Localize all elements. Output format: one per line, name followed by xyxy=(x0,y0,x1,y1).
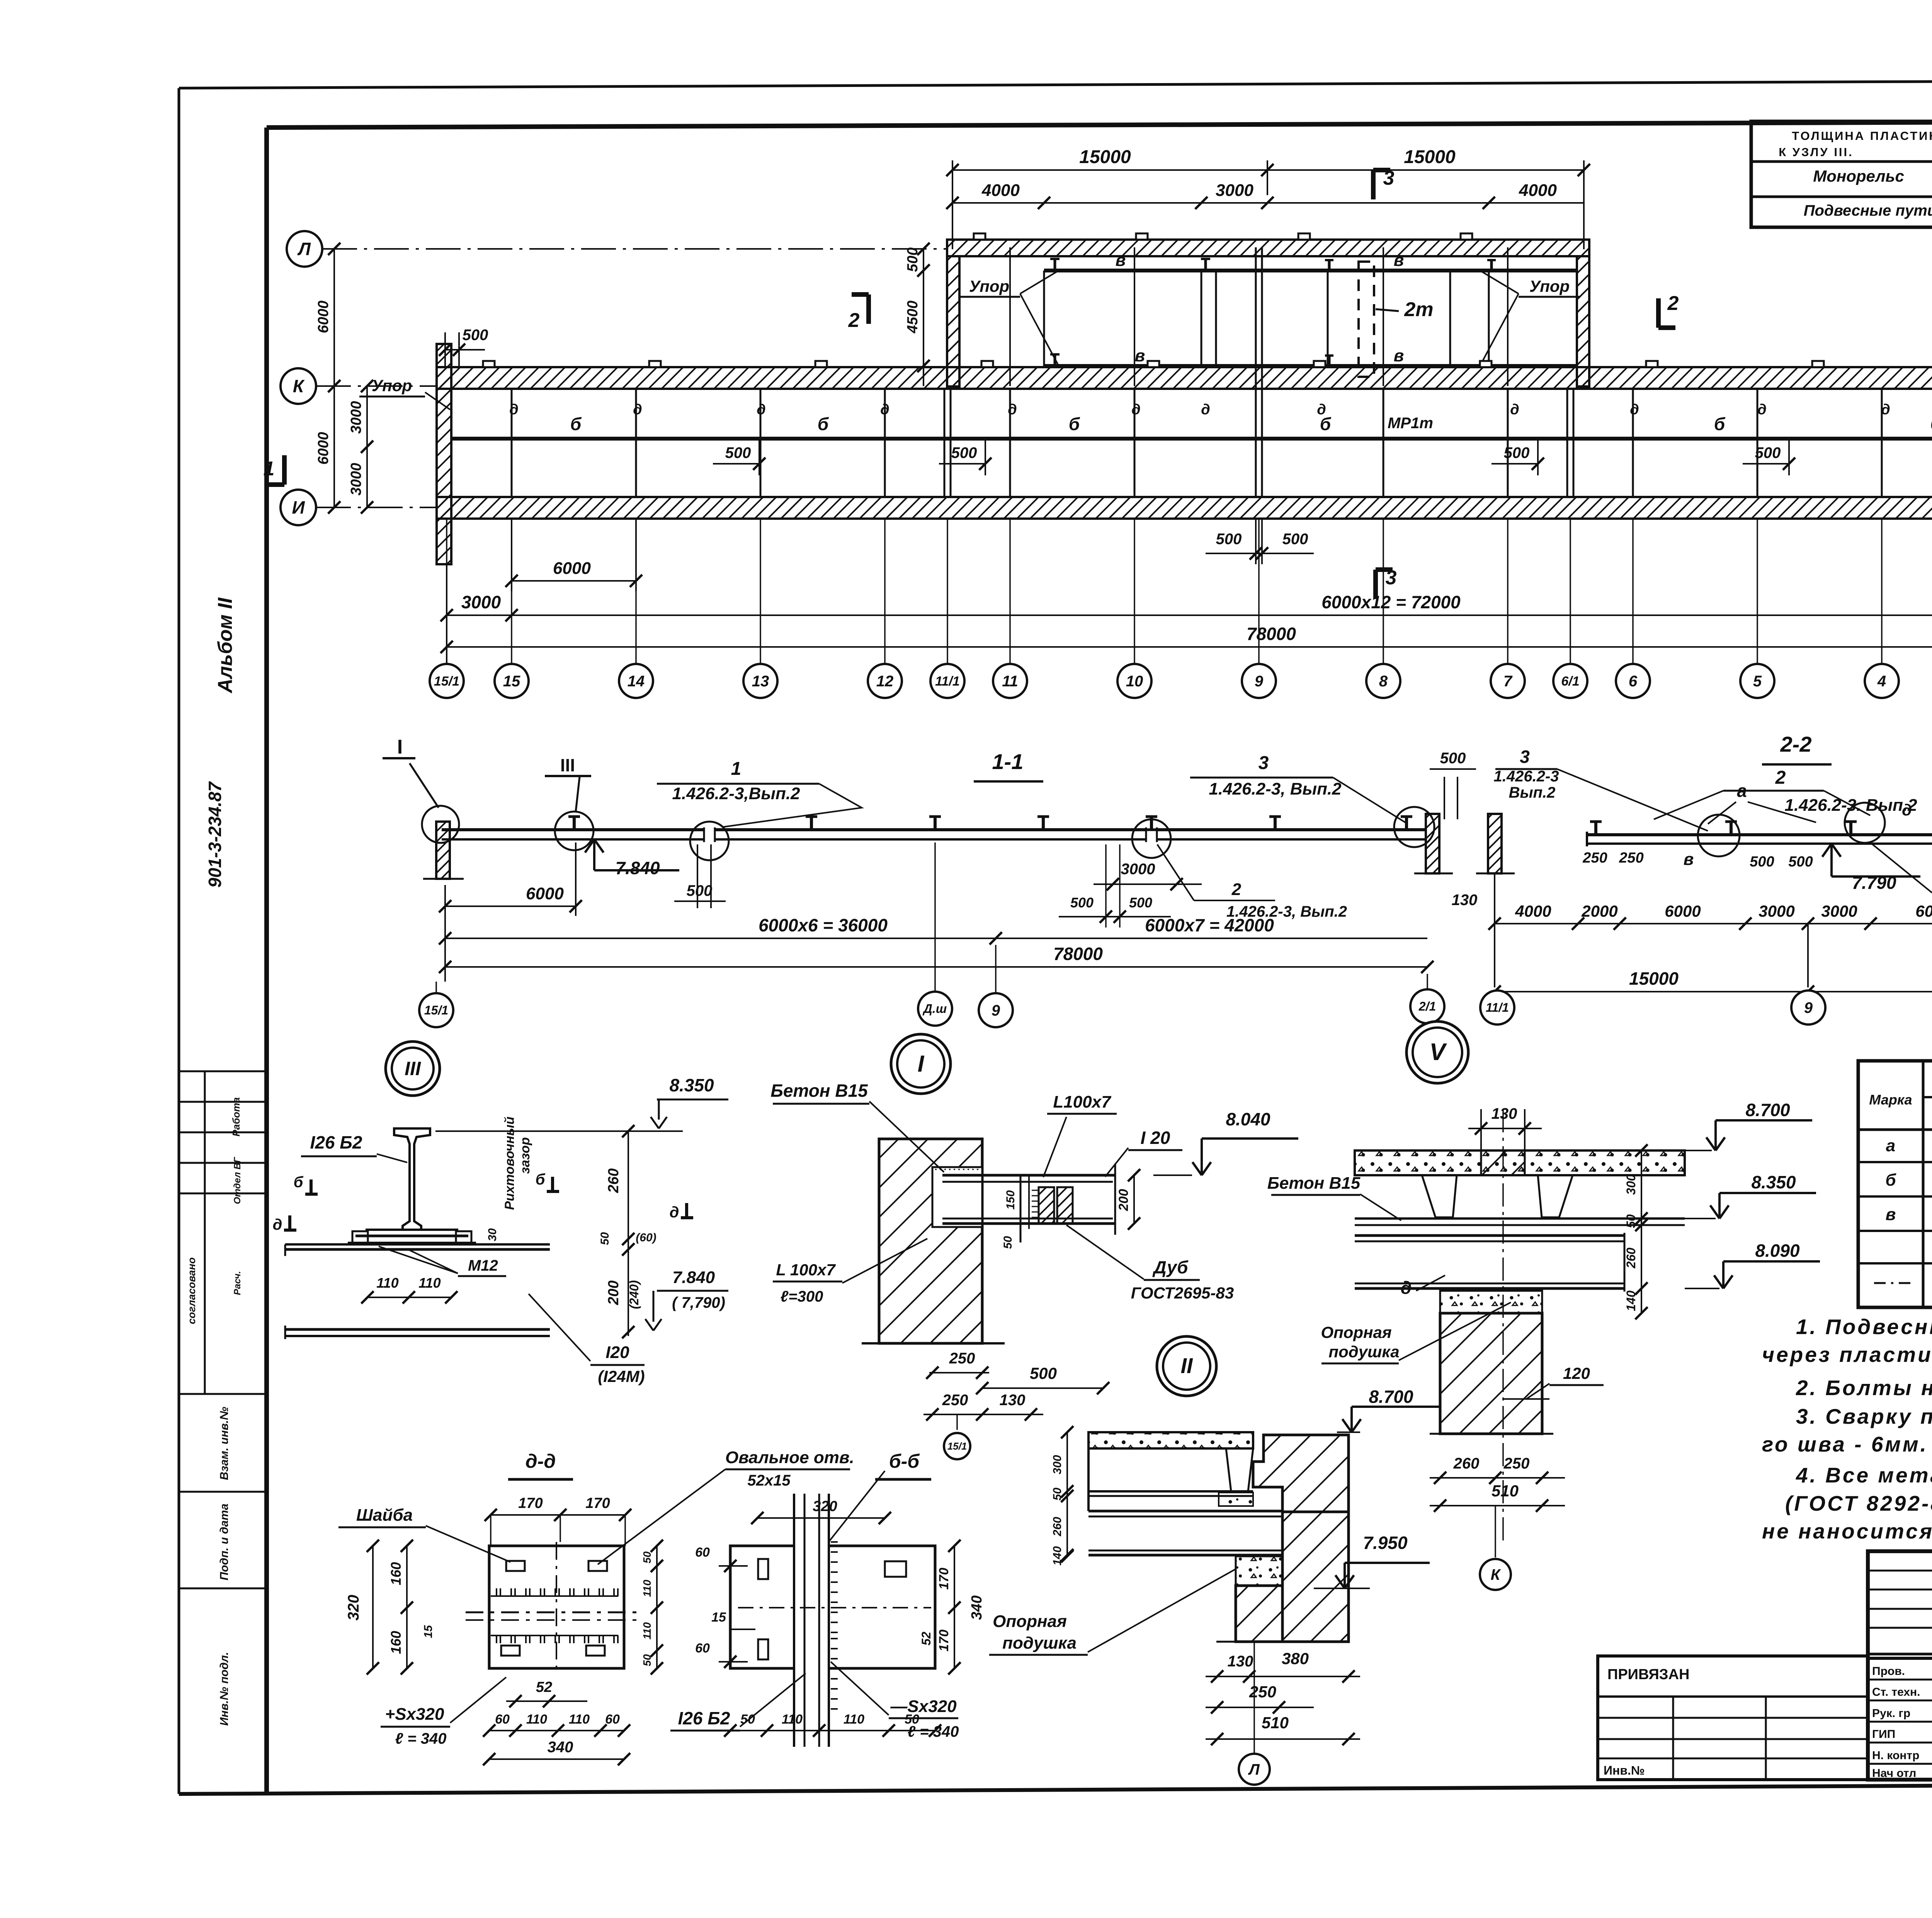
svg-text:60: 60 xyxy=(695,1641,710,1656)
svg-text:б: б xyxy=(1885,1171,1896,1190)
svg-text:15/1: 15/1 xyxy=(947,1440,967,1452)
svg-text:130: 130 xyxy=(1228,1653,1253,1670)
svg-text:б: б xyxy=(1069,414,1080,434)
svg-text:2: 2 xyxy=(848,309,860,332)
svg-text:52х15: 52х15 xyxy=(747,1472,791,1489)
svg-text:250: 250 xyxy=(942,1392,968,1409)
svg-text:260: 260 xyxy=(1453,1455,1480,1472)
svg-text:Опорная: Опорная xyxy=(993,1612,1067,1631)
svg-text:30: 30 xyxy=(486,1228,499,1241)
svg-text:110: 110 xyxy=(844,1712,864,1727)
svg-text:ГОСТ2695-83: ГОСТ2695-83 xyxy=(1131,1284,1234,1302)
svg-text:Упор: Упор xyxy=(1529,277,1570,295)
svg-text:60: 60 xyxy=(495,1712,510,1727)
svg-text:500: 500 xyxy=(463,327,488,344)
svg-text:130: 130 xyxy=(1452,892,1478,909)
svg-text:150: 150 xyxy=(1004,1190,1017,1210)
svg-text:160: 160 xyxy=(388,1631,404,1654)
svg-text:14: 14 xyxy=(628,673,645,690)
svg-text:6000х7 = 42000: 6000х7 = 42000 xyxy=(1145,915,1274,935)
svg-text:500: 500 xyxy=(1788,854,1813,870)
svg-text:L100х7: L100х7 xyxy=(1053,1093,1112,1111)
svg-text:2: 2 xyxy=(1231,880,1242,899)
svg-text:500: 500 xyxy=(725,444,751,461)
svg-text:52: 52 xyxy=(919,1632,933,1646)
svg-text:11: 11 xyxy=(1002,673,1018,690)
svg-text:б: б xyxy=(570,414,582,434)
svg-text:3000: 3000 xyxy=(348,463,364,496)
svg-text:7.840: 7.840 xyxy=(615,858,660,878)
svg-text:Отдел ВГ: Отдел ВГ xyxy=(232,1157,243,1204)
svg-text:110: 110 xyxy=(418,1275,440,1291)
svg-text:согласовано: согласовано xyxy=(186,1257,197,1324)
svg-text:6000: 6000 xyxy=(526,884,564,903)
svg-text:I: I xyxy=(918,1051,925,1077)
svg-text:320: 320 xyxy=(345,1595,362,1621)
svg-text:510: 510 xyxy=(1492,1482,1519,1500)
svg-text:Бетон В15: Бетон В15 xyxy=(770,1081,868,1101)
svg-text:50: 50 xyxy=(1051,1487,1064,1501)
svg-text:ТОЛЩИНА ПЛАСТИН: ТОЛЩИНА ПЛАСТИН xyxy=(1792,129,1932,143)
svg-text:( 7,790): ( 7,790) xyxy=(672,1294,725,1311)
svg-text:300: 300 xyxy=(1051,1455,1064,1474)
svg-text:Нач отл: Нач отл xyxy=(1872,1767,1916,1780)
svg-text:8: 8 xyxy=(1379,673,1388,690)
svg-text:Н. контр: Н. контр xyxy=(1872,1749,1919,1762)
svg-text:250: 250 xyxy=(1582,850,1607,866)
svg-text:6/1: 6/1 xyxy=(1561,674,1579,689)
svg-text:М12: М12 xyxy=(468,1257,498,1274)
svg-text:д: д xyxy=(757,402,766,418)
svg-text:170: 170 xyxy=(937,1630,951,1652)
svg-text:I 20: I 20 xyxy=(1141,1128,1170,1148)
svg-text:д: д xyxy=(1008,402,1017,418)
svg-text:15: 15 xyxy=(503,673,520,690)
svg-text:110: 110 xyxy=(376,1275,398,1291)
svg-text:140: 140 xyxy=(1624,1290,1638,1311)
svg-text:(I24М): (I24М) xyxy=(598,1367,645,1385)
svg-text:д-д: д-д xyxy=(526,1450,556,1472)
svg-text:К УЗЛУ III.: К УЗЛУ III. xyxy=(1779,145,1854,159)
svg-text:б: б xyxy=(818,414,829,434)
svg-text:160: 160 xyxy=(388,1562,404,1585)
svg-text:Расч.: Расч. xyxy=(232,1271,243,1295)
svg-text:Л: Л xyxy=(1248,1761,1260,1778)
svg-text:Инв.№ подл.: Инв.№ подл. xyxy=(218,1652,231,1726)
svg-text:9: 9 xyxy=(1255,673,1264,690)
svg-text:500: 500 xyxy=(905,247,921,272)
svg-text:60: 60 xyxy=(605,1712,620,1727)
svg-text:(60): (60) xyxy=(636,1231,656,1244)
svg-text:140: 140 xyxy=(1051,1546,1064,1566)
svg-text:5: 5 xyxy=(1753,673,1762,690)
svg-text:2: 2 xyxy=(1667,292,1679,315)
svg-text:Бетон В15: Бетон В15 xyxy=(1267,1174,1361,1193)
svg-text:подушка: подушка xyxy=(1002,1634,1077,1653)
svg-text:д: д xyxy=(1630,402,1639,418)
svg-text:(240): (240) xyxy=(627,1280,641,1309)
svg-text:а: а xyxy=(1737,781,1747,801)
svg-text:д: д xyxy=(633,402,642,418)
svg-text:200: 200 xyxy=(1116,1189,1131,1212)
svg-text:4000: 4000 xyxy=(981,181,1020,200)
svg-text:320: 320 xyxy=(813,1498,837,1515)
svg-text:50: 50 xyxy=(1624,1214,1638,1228)
svg-text:15: 15 xyxy=(422,1625,435,1638)
svg-text:15: 15 xyxy=(711,1610,726,1625)
svg-text:6000: 6000 xyxy=(315,301,332,334)
svg-text:4. Все металлоконструкции: 4. Все металлоконструкции окрасить за 2 … xyxy=(1796,1463,1932,1487)
svg-text:130: 130 xyxy=(1492,1105,1517,1122)
svg-text:Марка: Марка xyxy=(1869,1092,1912,1108)
svg-text:3: 3 xyxy=(1520,747,1530,767)
svg-text:50: 50 xyxy=(641,1551,653,1564)
svg-text:500: 500 xyxy=(1440,750,1466,767)
svg-text:9: 9 xyxy=(992,1002,1000,1019)
svg-text:в: в xyxy=(1394,346,1404,365)
svg-text:Овальное отв.: Овальное отв. xyxy=(725,1448,854,1467)
svg-text:11/1: 11/1 xyxy=(1486,1001,1509,1014)
svg-text:ГИП: ГИП xyxy=(1872,1728,1895,1741)
svg-text:в: в xyxy=(1116,251,1126,270)
svg-text:Ст. техн.: Ст. техн. xyxy=(1872,1686,1920,1698)
svg-text:50: 50 xyxy=(599,1232,611,1245)
svg-text:Подп. и дата: Подп. и дата xyxy=(218,1504,231,1581)
svg-text:не наносится.: не наносится. xyxy=(1762,1519,1932,1543)
svg-text:(ГОСТ 8292-85) по грунтовке.: (ГОСТ 8292-85) по грунтовке. На ездовую … xyxy=(1785,1491,1932,1515)
svg-text:1: 1 xyxy=(264,458,275,480)
svg-text:Вып.2: Вып.2 xyxy=(1509,784,1556,801)
svg-text:500: 500 xyxy=(1750,854,1774,870)
svg-text:1-1: 1-1 xyxy=(992,749,1024,774)
svg-text:И: И xyxy=(292,497,305,517)
svg-text:15/1: 15/1 xyxy=(434,674,459,689)
svg-text:52: 52 xyxy=(536,1679,552,1695)
svg-text:ℓ=300: ℓ=300 xyxy=(781,1288,823,1305)
svg-text:1.426.2-3,Вып.2: 1.426.2-3,Вып.2 xyxy=(672,784,800,803)
svg-text:260: 260 xyxy=(605,1168,622,1193)
svg-text:500: 500 xyxy=(687,882,713,899)
svg-text:Взам. инв.№: Взам. инв.№ xyxy=(218,1407,231,1480)
svg-text:К: К xyxy=(1491,1566,1501,1583)
svg-text:Дуб: Дуб xyxy=(1152,1257,1189,1277)
svg-text:500: 500 xyxy=(1755,444,1781,461)
svg-text:2000: 2000 xyxy=(1581,902,1617,920)
svg-text:12: 12 xyxy=(876,673,894,690)
svg-text:Монорельс: Монорельс xyxy=(1813,167,1904,185)
svg-text:7.950: 7.950 xyxy=(1363,1533,1408,1553)
svg-text:2. Болты нормальной точнос: 2. Болты нормальной точности ГОСТ 7798-7… xyxy=(1796,1376,1932,1400)
svg-text:—Sх320: —Sх320 xyxy=(890,1697,957,1716)
svg-text:500: 500 xyxy=(951,444,977,461)
svg-text:д: д xyxy=(1201,402,1210,418)
svg-text:д: д xyxy=(880,402,889,418)
svg-text:510: 510 xyxy=(1262,1714,1289,1732)
svg-text:340: 340 xyxy=(969,1595,985,1620)
svg-text:д: д xyxy=(670,1204,679,1221)
svg-text:8.040: 8.040 xyxy=(1226,1109,1270,1129)
svg-text:6000: 6000 xyxy=(553,559,591,578)
svg-text:в: в xyxy=(1684,850,1694,869)
svg-text:через пластины.: через пластины. xyxy=(1762,1343,1932,1367)
svg-text:13: 13 xyxy=(752,673,769,690)
svg-text:III: III xyxy=(405,1058,421,1079)
svg-text:3. Сварку производить элект: 3. Сварку производить электродами Э42 ГО… xyxy=(1796,1404,1932,1428)
svg-text:подушка: подушка xyxy=(1328,1343,1399,1361)
svg-text:3: 3 xyxy=(1383,167,1395,189)
svg-text:250: 250 xyxy=(949,1350,975,1367)
svg-text:1: 1 xyxy=(731,759,742,779)
svg-text:2-2: 2-2 xyxy=(1780,732,1812,756)
svg-text:д: д xyxy=(1401,1278,1412,1298)
svg-text:300: 300 xyxy=(1624,1174,1638,1195)
svg-text:110: 110 xyxy=(526,1712,547,1727)
svg-text:170: 170 xyxy=(937,1568,951,1590)
svg-text:I20: I20 xyxy=(605,1343,629,1362)
svg-text:1.426.2-3, Вып.2: 1.426.2-3, Вып.2 xyxy=(1209,779,1342,798)
svg-text:д: д xyxy=(1881,402,1890,418)
svg-text:110: 110 xyxy=(782,1712,803,1727)
svg-text:3000: 3000 xyxy=(1216,181,1253,200)
svg-text:ПРИВЯЗАН: ПРИВЯЗАН xyxy=(1607,1666,1689,1683)
svg-text:I26 Б2: I26 Б2 xyxy=(678,1708,730,1728)
svg-text:78000: 78000 xyxy=(1247,624,1296,644)
svg-text:8.350: 8.350 xyxy=(1751,1172,1796,1192)
svg-text:Рихтовочный: Рихтовочный xyxy=(502,1116,517,1210)
svg-text:4000: 4000 xyxy=(1519,181,1557,200)
svg-text:Альбом II: Альбом II xyxy=(214,597,236,694)
svg-text:Работа: Работа xyxy=(230,1097,242,1136)
svg-text:ℓ = 340: ℓ = 340 xyxy=(908,1723,959,1740)
svg-text:III: III xyxy=(560,755,575,775)
svg-text:4500: 4500 xyxy=(905,301,921,334)
svg-text:110: 110 xyxy=(641,1579,653,1597)
svg-text:170: 170 xyxy=(585,1495,610,1511)
svg-text:а: а xyxy=(1886,1136,1895,1155)
svg-text:15000: 15000 xyxy=(1404,147,1456,167)
svg-text:9: 9 xyxy=(1804,999,1813,1016)
svg-text:4: 4 xyxy=(1877,673,1886,690)
svg-text:I: I xyxy=(397,736,403,758)
svg-text:зазор: зазор xyxy=(518,1137,532,1174)
svg-text:15000: 15000 xyxy=(1629,968,1679,989)
svg-text:Инв.№: Инв.№ xyxy=(1604,1763,1645,1777)
svg-text:260: 260 xyxy=(1624,1247,1638,1269)
svg-text:250: 250 xyxy=(1619,850,1643,866)
svg-text:б: б xyxy=(1714,414,1726,434)
svg-text:6000х6 = 36000: 6000х6 = 36000 xyxy=(759,915,888,935)
svg-text:Опорная: Опорная xyxy=(1321,1323,1391,1341)
svg-text:15000: 15000 xyxy=(1079,147,1131,167)
svg-text:К: К xyxy=(293,376,305,396)
svg-text:8.700: 8.700 xyxy=(1369,1387,1413,1407)
svg-text:д: д xyxy=(1131,402,1141,418)
svg-text:в: в xyxy=(1135,346,1145,365)
svg-text:60: 60 xyxy=(695,1545,710,1560)
svg-text:130: 130 xyxy=(1000,1392,1026,1409)
svg-text:901-3-234.87: 901-3-234.87 xyxy=(205,781,225,888)
svg-text:Шайба: Шайба xyxy=(356,1506,413,1525)
svg-text:3000: 3000 xyxy=(1759,902,1794,920)
svg-text:260: 260 xyxy=(1051,1517,1064,1537)
svg-text:110: 110 xyxy=(569,1712,590,1727)
svg-text:11/1: 11/1 xyxy=(935,674,960,689)
svg-text:ℓ = 340: ℓ = 340 xyxy=(395,1730,447,1747)
svg-text:200: 200 xyxy=(605,1280,622,1305)
svg-text:1.426.2-3: 1.426.2-3 xyxy=(1493,768,1559,785)
svg-text:380: 380 xyxy=(1282,1649,1309,1668)
svg-text:Д.ш: Д.ш xyxy=(922,1002,947,1016)
svg-text:V: V xyxy=(1429,1039,1447,1065)
svg-text:II: II xyxy=(1180,1353,1193,1378)
svg-text:6000х12 = 72000: 6000х12 = 72000 xyxy=(1321,592,1461,612)
svg-text:д: д xyxy=(1757,402,1767,418)
svg-text:50: 50 xyxy=(641,1654,653,1666)
svg-text:L 100х7: L 100х7 xyxy=(776,1261,836,1279)
svg-text:500: 500 xyxy=(1504,444,1530,461)
svg-text:б: б xyxy=(294,1174,304,1191)
svg-text:Пров.: Пров. xyxy=(1872,1665,1905,1678)
svg-text:50: 50 xyxy=(1002,1236,1014,1249)
svg-text:6000: 6000 xyxy=(1665,902,1701,920)
svg-text:д: д xyxy=(1317,402,1326,418)
svg-text:2: 2 xyxy=(1775,768,1786,788)
svg-text:Упор: Упор xyxy=(969,277,1009,295)
svg-text:1. Подвесные пути крепятся: 1. Подвесные пути крепятся к балкам мета… xyxy=(1796,1315,1932,1339)
svg-text:д: д xyxy=(273,1216,282,1233)
svg-text:3000: 3000 xyxy=(1821,902,1857,920)
svg-text:го шва - 6мм.: го шва - 6мм. xyxy=(1762,1432,1928,1456)
svg-text:3000: 3000 xyxy=(461,592,501,612)
svg-text:Л: Л xyxy=(297,239,311,259)
svg-text:500: 500 xyxy=(1030,1364,1057,1382)
svg-text:б: б xyxy=(1930,414,1932,434)
svg-text:6: 6 xyxy=(1629,673,1638,690)
svg-text:МР1т: МР1т xyxy=(1388,415,1433,432)
svg-text:500: 500 xyxy=(1129,895,1152,910)
svg-text:7.790: 7.790 xyxy=(1852,873,1896,893)
svg-text:78000: 78000 xyxy=(1053,944,1103,964)
svg-text:2т: 2т xyxy=(1404,298,1433,321)
svg-text:340: 340 xyxy=(548,1739,573,1756)
svg-text:2/1: 2/1 xyxy=(1418,999,1436,1013)
svg-text:3000: 3000 xyxy=(348,401,364,434)
svg-text:170: 170 xyxy=(518,1495,543,1511)
svg-text:I26 Б2: I26 Б2 xyxy=(310,1132,362,1152)
svg-text:3: 3 xyxy=(1259,753,1269,773)
svg-text:3000: 3000 xyxy=(1121,861,1155,878)
svg-text:д: д xyxy=(1902,801,1912,819)
svg-text:250: 250 xyxy=(1503,1455,1530,1472)
svg-text:6000: 6000 xyxy=(1915,902,1932,920)
svg-text:Рук. гр: Рук. гр xyxy=(1872,1707,1910,1720)
svg-text:110: 110 xyxy=(641,1622,653,1639)
svg-text:б: б xyxy=(536,1171,546,1188)
svg-text:500: 500 xyxy=(1282,531,1308,548)
svg-text:в: в xyxy=(1394,251,1404,270)
svg-text:в: в xyxy=(1886,1205,1896,1224)
svg-text:д: д xyxy=(1510,402,1519,418)
svg-text:250: 250 xyxy=(1249,1683,1276,1701)
svg-text:15/1: 15/1 xyxy=(424,1003,448,1017)
svg-text:500: 500 xyxy=(1070,895,1094,910)
svg-text:120: 120 xyxy=(1563,1364,1590,1382)
svg-text:500: 500 xyxy=(1216,531,1242,548)
svg-text:б-б: б-б xyxy=(889,1450,920,1472)
svg-text:Подвесные пути: Подвесные пути xyxy=(1804,202,1932,219)
svg-text:8.090: 8.090 xyxy=(1755,1241,1800,1261)
svg-text:+Sх320: +Sх320 xyxy=(385,1705,444,1724)
svg-text:8.700: 8.700 xyxy=(1745,1100,1790,1120)
svg-text:4000: 4000 xyxy=(1515,902,1551,920)
svg-text:10: 10 xyxy=(1126,673,1143,690)
svg-text:7: 7 xyxy=(1503,673,1513,690)
svg-text:3: 3 xyxy=(1386,567,1397,589)
svg-text:8.350: 8.350 xyxy=(669,1075,714,1095)
svg-text:7.840: 7.840 xyxy=(672,1268,715,1287)
svg-text:6000: 6000 xyxy=(315,432,332,465)
svg-text:д: д xyxy=(509,402,519,418)
